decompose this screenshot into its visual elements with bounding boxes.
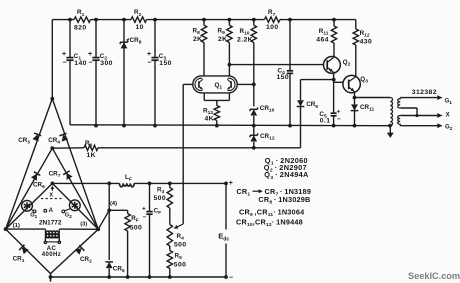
svg-text:−: −: [143, 214, 147, 221]
svg-text:CR6​: CR6​: [33, 182, 45, 191]
svg-text:2N1772: 2N1772: [39, 220, 62, 227]
svg-text:R8​: R8​: [193, 28, 201, 37]
node 4: [107, 208, 111, 212]
wiper arrow for R4: [176, 224, 183, 227]
anode terminal A: [44, 209, 47, 212]
svg-text:CR9​ ,CR11​· 1N3064: CR9​ ,CR11​· 1N3064: [239, 207, 305, 218]
wire: Q3 emitter down: [354, 93, 356, 98]
wire: to transformer primary top: [355, 97, 391, 99]
wire: Q1 emitter bar to R13: [203, 93, 205, 101]
wire: Q3 base stub: [334, 81, 343, 83]
wire between R3 and R4: [169, 208, 171, 225]
gate lamp G2: [69, 200, 80, 211]
capacitor C2 300: [95, 20, 97, 58]
transformer T1 secondary winding bottom section: [398, 115, 401, 125]
svg-text:A: A: [49, 208, 54, 214]
svg-text:CR2​: CR2​: [80, 256, 92, 265]
output G2: [400, 125, 438, 127]
svg-text:CR7​: CR7​: [49, 171, 61, 180]
wire: diamond lower-right side: [51, 229, 99, 273]
transistor Q2 2N2907: [324, 57, 341, 74]
transformer T1 secondary winding top section: [398, 98, 401, 108]
svg-text:500: 500: [174, 242, 187, 249]
svg-text:R2​: R2​: [134, 9, 142, 18]
node: apex 1: [50, 97, 54, 101]
svg-text:CR8​: CR8​: [130, 37, 142, 46]
svg-text:R3​: R3​: [157, 187, 165, 196]
node: apex 3: [51, 182, 55, 186]
diode CR2: [75, 248, 82, 255]
bottom return bus: [51, 276, 227, 278]
svg-text:R5​: R5​: [175, 253, 183, 262]
svg-text:500: 500: [154, 195, 167, 202]
svg-text:+: +: [337, 108, 341, 115]
svg-text:CF​: CF​: [154, 207, 162, 216]
wire: Q1 left base lead down to R4 wiper: [183, 83, 193, 85]
wire: left branch from bus to apex: [51, 20, 53, 99]
capacitor CF: [149, 183, 151, 211]
svg-text:4K: 4K: [205, 116, 215, 123]
svg-text:CR11​: CR11​: [360, 104, 375, 113]
resistor R12 430: [353, 29, 358, 45]
svg-text:820: 820: [74, 25, 87, 32]
svg-text:CR12​: CR12​: [260, 133, 275, 142]
svg-text:−: −: [337, 116, 341, 123]
X arrow below apex 3: [51, 187, 53, 191]
diode CR3: [32, 134, 38, 141]
svg-text:400Hz: 400Hz: [42, 252, 61, 258]
AC 400Hz source: [44, 229, 46, 242]
capacitor C5 0.1: [331, 112, 337, 114]
Edc positive terminal: [224, 182, 228, 186]
wire: middle triangle right side: [52, 148, 98, 229]
lower horizontal bus: [70, 124, 392, 127]
wire: base line right of AC source: [59, 228, 98, 230]
diode CR6: [31, 174, 37, 181]
wire: R6 line from apex2 to CR9 corner: [52, 147, 84, 149]
svg-text:2K: 2K: [193, 36, 203, 43]
svg-text:CR3​: CR3​: [18, 137, 30, 146]
svg-text:Q1​: Q1​: [215, 82, 223, 91]
node: Q1 right base junction: [252, 83, 256, 87]
node: apex 2: [50, 146, 54, 150]
svg-text:CR9​: CR9​: [306, 101, 318, 110]
wire between R4 and R5: [169, 246, 171, 251]
ground: [389, 126, 391, 133]
capacitor C3 150: [154, 20, 156, 58]
svg-text:G2​: G2​: [445, 125, 453, 133]
svg-text:140: 140: [74, 60, 87, 67]
diode CR5: [106, 262, 113, 268]
wire: vertical through C5: [333, 80, 335, 113]
wire: top bus right corner into R12: [355, 20, 357, 29]
svg-text:10: 10: [136, 24, 144, 31]
resistor R11 464: [333, 20, 335, 26]
svg-text:CR5​: CR5​: [113, 266, 125, 275]
svg-text:R4​: R4​: [177, 233, 185, 242]
svg-text:R1​: R1​: [77, 9, 85, 18]
wire: R12 to Q3 top: [355, 75, 357, 78]
wire: diagonal from node 3 to node 4: [98, 210, 109, 229]
svg-text:(1): (1): [13, 223, 20, 229]
diode CR7: [67, 173, 73, 180]
svg-text:AC: AC: [47, 246, 57, 252]
svg-text:CR1​: CR1​: [13, 256, 25, 265]
svg-text:Q2​: Q2​: [343, 59, 351, 68]
zener diode CR10: [250, 109, 257, 115]
wire: node4 vertical with CR5: [108, 183, 110, 260]
capacitor C1 140: [69, 20, 71, 58]
wire: Q2 base wire: [229, 64, 323, 66]
wire: R11 to Q2 collector: [333, 56, 335, 59]
svg-text:CR4​: CR4​: [48, 137, 60, 146]
wire: middle triangle left side: [6, 148, 53, 229]
node dots on positive rail: [107, 182, 111, 186]
svg-text:R9​: R9​: [218, 28, 226, 37]
resistor R5 500: [167, 251, 172, 269]
wire: base line left of AC source: [6, 228, 46, 230]
svg-text:−: −: [147, 60, 151, 67]
node (1): [4, 227, 8, 231]
wire: Edc vertical: [225, 183, 227, 229]
wire: LF / Edc positive rail: [52, 182, 119, 184]
resistor R7 100: [265, 17, 281, 22]
svg-text:2.2K: 2.2K: [237, 36, 253, 43]
node dots on bottom bus: [107, 275, 111, 279]
svg-text:(4): (4): [110, 201, 117, 207]
svg-text:R7​: R7​: [268, 9, 276, 18]
svg-text:312382: 312382: [412, 89, 437, 96]
svg-text:430: 430: [360, 38, 373, 45]
diode CR11: [354, 98, 356, 105]
svg-text:300: 300: [100, 60, 113, 67]
svg-text:+: +: [147, 51, 151, 58]
svg-text:(3): (3): [80, 222, 87, 228]
wire: inner triangle right side: [52, 183, 98, 229]
svg-text:Q3​: Q3​: [360, 76, 368, 85]
svg-text:X: X: [49, 192, 53, 198]
wire: emitter junction to CR9 branch: [301, 79, 334, 81]
svg-text:G2​: G2​: [65, 213, 72, 221]
svg-text:150: 150: [277, 74, 290, 81]
zener diode CR12: [253, 126, 255, 135]
svg-text:R10​: R10​: [240, 28, 250, 37]
resistor R13 4K: [214, 106, 219, 121]
output X tap: [400, 107, 417, 109]
node: R9/Q2-base junction: [228, 63, 232, 67]
svg-text:−: −: [62, 60, 66, 67]
svg-text:CR1​: CR1​: [236, 187, 250, 198]
svg-text:R11​: R11​: [319, 28, 329, 37]
node: Q2 emitter junction: [332, 78, 336, 82]
diode CR1: [22, 247, 29, 254]
svg-text:−: −: [88, 60, 92, 67]
node: CR12 bottom junction: [252, 146, 256, 150]
inductor LF: [120, 183, 135, 186]
resistor R1 820: [74, 17, 91, 22]
svg-text:464: 464: [316, 36, 329, 43]
svg-text:G1​: G1​: [30, 213, 37, 221]
dual transistor Q1 2N2060: [193, 76, 237, 93]
Edc negative terminal: [224, 275, 228, 279]
wire: stub to RF: [109, 209, 127, 211]
node: Q3 emitter junction: [353, 96, 357, 100]
resistor R9 2K: [228, 20, 230, 26]
svg-text:+: +: [62, 51, 66, 58]
node (3): [96, 227, 100, 231]
dashed line: [41, 198, 63, 200]
resistor R8 2K: [203, 20, 205, 26]
wire: Q1 right base lead: [237, 83, 254, 85]
wire: Q2 emitter down: [333, 73, 335, 80]
resistor RF 500: [127, 210, 129, 213]
wire: outer triangle right side: [52, 99, 98, 230]
zener diode CR8: [123, 20, 125, 125]
svg-text:LF​: LF​: [125, 174, 132, 183]
svg-text:1K: 1K: [87, 152, 97, 159]
resistor R3 500: [169, 183, 171, 187]
top supply bus: [52, 19, 74, 21]
node: top bus junction dots: [68, 18, 72, 22]
potentiometer R4 500: [167, 225, 172, 247]
output G1: [400, 97, 438, 99]
wire: outer triangle left side: [6, 99, 53, 230]
wire: inner triangle left side: [6, 183, 53, 229]
svg-text:100: 100: [266, 24, 279, 31]
svg-text:RF​: RF​: [131, 215, 139, 224]
svg-text:CR10​: CR10​: [260, 105, 275, 114]
gate lamp G1: [22, 200, 33, 211]
node: diamond bottom vertex: [50, 274, 52, 277]
svg-text:CR8​ · 1N3029B: CR8​ · 1N3029B: [258, 195, 310, 206]
svg-text:150: 150: [159, 60, 172, 67]
svg-text:SeekIC.com: SeekIC.com: [408, 271, 460, 281]
svg-text:R12​: R12​: [360, 30, 370, 39]
capacitor C4 150: [289, 20, 291, 71]
transformer T1 primary winding: [390, 98, 392, 126]
svg-text:+: +: [229, 180, 233, 187]
resistor R6 1K: [84, 145, 98, 150]
svg-text:2K: 2K: [218, 36, 228, 43]
diode CR9: [300, 80, 302, 101]
resistor R10 2.2K: [253, 20, 255, 26]
svg-text:+: +: [142, 205, 146, 212]
resistor R2 10: [131, 17, 147, 22]
svg-text:G1​: G1​: [445, 99, 453, 107]
svg-text:−: −: [229, 275, 233, 282]
svg-text:Edc: Edc: [218, 232, 229, 243]
transistor Q3 2N494A: [343, 75, 360, 92]
svg-text:500: 500: [174, 262, 187, 269]
svg-text:X: X: [446, 113, 450, 119]
wire: diamond lower-left side: [6, 229, 51, 274]
svg-text:+: +: [88, 51, 92, 58]
node: lower bus junction dots: [94, 124, 98, 128]
diode CR4: [62, 135, 68, 142]
svg-text:0.1: 0.1: [320, 117, 331, 124]
svg-text:CR10​,CR12​· 1N9448: CR10​,CR12​· 1N9448: [236, 218, 303, 229]
svg-text:500: 500: [130, 225, 143, 232]
